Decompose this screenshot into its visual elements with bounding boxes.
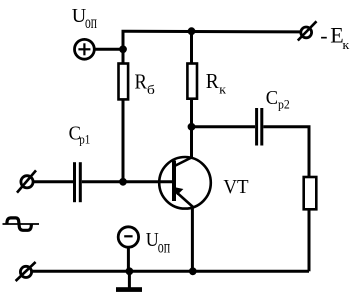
node A junction dot [119, 178, 127, 186]
ground [116, 271, 142, 292]
AC source squiggle symbol [3, 218, 40, 230]
transistor VT (PNP) [159, 157, 211, 209]
wire Rk bottom to collector node C [190, 99, 193, 158]
wire bottom rail [33, 270, 310, 273]
label Rb [135, 69, 156, 97]
label U_op (bottom supply) [146, 229, 170, 257]
svg-text:к: к [342, 37, 350, 52]
svg-text:R: R [135, 69, 148, 93]
wire source- to bottom rail [127, 248, 130, 272]
wire node C to Cp2 left plate [192, 125, 256, 128]
terminal bottom-left (circle with slash) [16, 262, 36, 281]
svg-text:VT: VT [223, 176, 248, 198]
svg-text:б: б [147, 82, 155, 97]
wire Cp2 right plate to load branch [263, 127, 309, 177]
node G junction dot (ground tap) [125, 267, 133, 275]
capacitor Cp2 [257, 108, 262, 146]
svg-text:к: к [219, 82, 227, 97]
svg-text:R: R [206, 69, 220, 93]
wire emitter down to bottom rail [191, 207, 194, 272]
label Cp1 [69, 123, 91, 147]
capacitor Cp1 [75, 162, 81, 202]
svg-text:оп: оп [85, 12, 97, 32]
source - (negative supply circle) [118, 227, 138, 247]
node E junction dot (emitter tap) [189, 267, 197, 275]
wire Cp1 to base of VT (node A) [82, 180, 172, 183]
resistor Rb [119, 64, 129, 100]
label Cp2 [266, 87, 290, 112]
svg-text:р2: р2 [278, 97, 290, 112]
wire node B1 to Rb top [122, 49, 125, 63]
node B1 junction dot [119, 45, 127, 53]
resistor Rk [187, 64, 197, 99]
node T1 junction dot on top rail [188, 27, 196, 35]
node C junction dot (collector) [188, 123, 196, 131]
svg-text:р1: р1 [79, 132, 90, 147]
source + (positive supply circle) [75, 39, 95, 59]
wire Rload bottom to bottom rail [308, 209, 311, 271]
wire top rail branch to Rk top [190, 31, 193, 63]
svg-text:оп: оп [158, 237, 170, 257]
terminal -Ek (circle with slash) [298, 21, 317, 40]
wire Rb bottom to node A (base node) [122, 100, 125, 182]
wire source+ to node B1 [95, 48, 123, 51]
label -Ek [320, 23, 350, 52]
svg-text:C: C [266, 87, 278, 109]
resistor Rload [304, 177, 317, 209]
label U_op (top supply) [72, 5, 97, 32]
wire input terminal to Cp1 [34, 180, 74, 183]
label Rk [206, 69, 227, 97]
wire node B1 up and top rail to -Ek terminal [123, 31, 300, 49]
terminal input (circle with slash) [17, 170, 36, 192]
svg-text:-: - [320, 23, 327, 48]
